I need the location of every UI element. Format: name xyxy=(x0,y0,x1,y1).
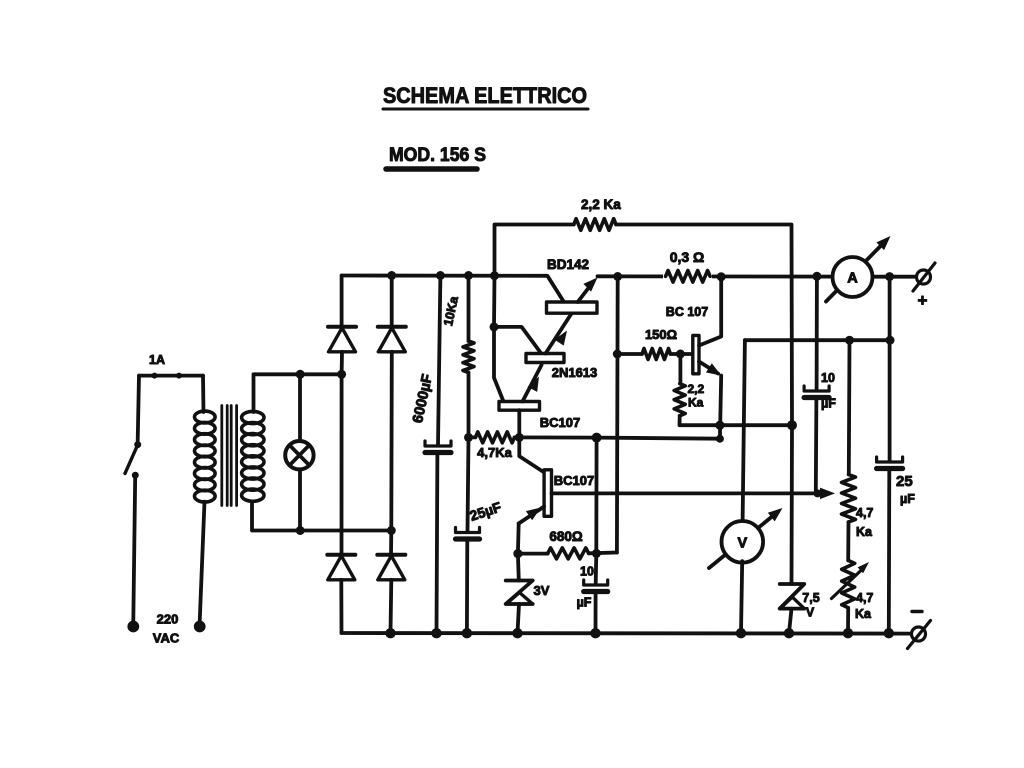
svg-text:3V: 3V xyxy=(534,583,550,598)
svg-text:4,7: 4,7 xyxy=(856,506,873,520)
svg-text:BC 107: BC 107 xyxy=(666,305,708,319)
svg-text:680Ω: 680Ω xyxy=(549,529,583,544)
svg-text:µF: µF xyxy=(821,397,836,411)
svg-text:10: 10 xyxy=(580,565,594,579)
svg-text:MOD. 156 S: MOD. 156 S xyxy=(389,145,486,166)
svg-text:150Ω: 150Ω xyxy=(645,327,677,342)
svg-text:0,3 Ω: 0,3 Ω xyxy=(670,249,705,265)
svg-text:µF: µF xyxy=(900,492,915,506)
svg-text:A: A xyxy=(847,271,858,287)
svg-text:µF: µF xyxy=(577,596,592,610)
svg-text:4,7: 4,7 xyxy=(856,591,873,605)
svg-text:Ka: Ka xyxy=(855,607,872,621)
svg-text:V: V xyxy=(737,536,747,552)
svg-text:Ka: Ka xyxy=(688,396,704,410)
svg-text:4,7Ka: 4,7Ka xyxy=(477,445,512,460)
svg-text:220: 220 xyxy=(157,612,179,627)
svg-text:2,2 Ka: 2,2 Ka xyxy=(581,197,621,212)
svg-text:BD142: BD142 xyxy=(547,257,589,272)
svg-text:VAC: VAC xyxy=(153,631,180,646)
svg-text:SCHEMA ELETTRICO: SCHEMA ELETTRICO xyxy=(383,83,587,108)
svg-text:BC107: BC107 xyxy=(554,473,594,488)
svg-text:Ka: Ka xyxy=(856,525,873,539)
svg-text:+: + xyxy=(918,291,928,310)
svg-text:1A: 1A xyxy=(149,353,165,367)
svg-text:7,5: 7,5 xyxy=(802,591,819,605)
svg-text:25: 25 xyxy=(896,473,913,490)
svg-text:BC107: BC107 xyxy=(540,415,580,430)
svg-text:2N1613: 2N1613 xyxy=(552,365,598,380)
svg-text:10: 10 xyxy=(821,371,835,385)
svg-text:2,2: 2,2 xyxy=(688,382,705,396)
svg-text:V: V xyxy=(806,606,815,620)
